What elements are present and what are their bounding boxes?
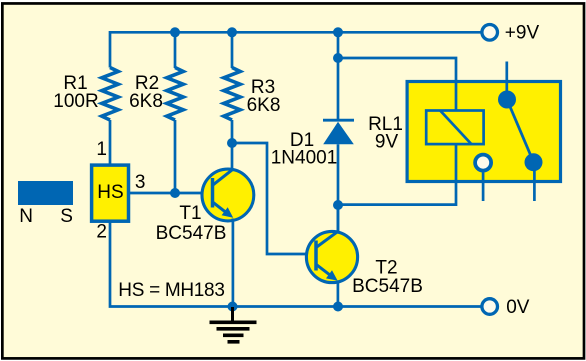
node junction top rail R2 (170, 27, 180, 37)
wire R3 bottom to T1 collector (231, 120, 234, 169)
node junction R3 / T2 base branch (227, 138, 237, 148)
relay NC contact (475, 155, 491, 201)
label 0V (506, 297, 530, 318)
transistor T2 (306, 231, 357, 282)
wire R2 top (174, 32, 177, 68)
svg-text:100R: 100R (53, 91, 98, 112)
wire T1 emitter to 0V rail (232, 219, 235, 307)
label RL1 9V (368, 114, 403, 153)
wire T2 emitter to 0V rail (337, 281, 340, 307)
pin 1 label (96, 139, 107, 160)
svg-text:0V: 0V (506, 297, 530, 318)
label T1 BC547B (156, 203, 227, 244)
svg-text:6K8: 6K8 (129, 91, 163, 112)
wire T2 collector (337, 205, 340, 232)
note HS = MH183 (118, 280, 224, 301)
wire HS pin 3 to T1 base (130, 192, 212, 195)
resistor R3 (224, 68, 240, 121)
relay NO contact (525, 153, 543, 201)
relay lever (507, 100, 534, 163)
svg-text:N: N (19, 206, 33, 227)
wire node R3 to T2 base (232, 143, 316, 254)
resistor R1 (102, 68, 118, 121)
terminal 0V (482, 299, 498, 315)
svg-text:9V: 9V (375, 132, 399, 153)
svg-text:BC547B: BC547B (352, 276, 423, 297)
transistor T1 (202, 169, 254, 221)
node junction 0V rail ground (228, 302, 238, 312)
svg-text:6K8: 6K8 (247, 95, 281, 116)
svg-text:HS = MH183: HS = MH183 (118, 280, 224, 301)
relay RL1 box (407, 82, 560, 182)
svg-text:2: 2 (96, 222, 107, 243)
label R2 6K8 (129, 73, 163, 112)
pin 2 label (96, 222, 107, 243)
wire R2 bottom to T1 base node (174, 120, 177, 193)
magnet (18, 181, 73, 205)
terminal +9V (482, 25, 498, 41)
svg-text:+9V: +9V (505, 23, 540, 44)
wire relay coil top (338, 58, 456, 111)
label R1 100R (53, 73, 98, 112)
label T2 BC547B (352, 258, 423, 298)
node junction top rail D1 (333, 27, 343, 37)
wire +9V rail (110, 32, 481, 67)
svg-text:S: S (60, 206, 73, 227)
hall sensor HS (92, 165, 129, 221)
relay common contact (498, 62, 516, 109)
node junction D1 / relay coil branch (333, 53, 343, 63)
resistor R2 (167, 68, 183, 121)
svg-text:BC547B: BC547B (156, 223, 227, 244)
svg-text:HS: HS (97, 182, 123, 203)
node junction D1 anode / T2 collector (333, 200, 343, 210)
diode D1 (323, 32, 354, 232)
relay coil (426, 111, 483, 145)
node junction top rail R3 (227, 27, 237, 37)
label S (60, 206, 73, 227)
svg-text:1: 1 (96, 139, 107, 160)
svg-text:1N4001: 1N4001 (271, 148, 338, 169)
wire R1 bottom to HS pin 1 (109, 120, 112, 164)
node junction R2 / T1 base (170, 188, 180, 198)
node junction 0V rail T2 emitter (333, 302, 343, 312)
pin 3 label (135, 172, 146, 193)
label D1 1N4001 (271, 130, 338, 169)
label R3 6K8 (247, 77, 281, 116)
label N (19, 206, 33, 227)
wire relay coil bottom to D1 anode node (338, 144, 456, 205)
label +9V (505, 23, 540, 44)
wire 0V rail from HS pin 2 (110, 218, 481, 307)
svg-text:T1: T1 (179, 203, 201, 224)
ground (210, 307, 257, 344)
wire R3 top (231, 32, 234, 68)
svg-text:3: 3 (135, 172, 146, 193)
